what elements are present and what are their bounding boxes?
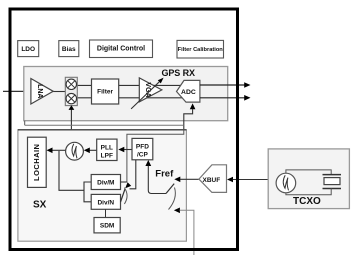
- block Filter Calibration: [177, 40, 224, 58]
- SX box top edge (dark): [18, 129, 187, 131]
- SX block box: [18, 130, 187, 241]
- wire SDM to DivN: [105, 209, 107, 217]
- block PFD/CP: [132, 138, 153, 159]
- svg-text:Bias: Bias: [62, 46, 76, 53]
- GPS RX block box: [24, 67, 228, 121]
- wire Fref to PFD with arrow: [145, 160, 166, 194]
- wire TCXO loop top: [286, 170, 331, 175]
- svg-text:Filter: Filter: [97, 89, 113, 96]
- wire AGC return line: [25, 124, 184, 126]
- crystal X1: [323, 175, 342, 189]
- wire GPS RX box left stub: [24, 121, 26, 126]
- block LDO: [18, 41, 39, 57]
- wire PLL LPF to VCO with arrow: [84, 148, 97, 154]
- wire ADC clock with arrow: [184, 103, 196, 130]
- oscillator VCO: [66, 142, 84, 160]
- svg-text:TCXO: TCXO: [293, 196, 321, 207]
- mixer (I/Q downconverter): [65, 77, 77, 105]
- switch divider lever: [121, 189, 126, 202]
- svg-text:LNA: LNA: [36, 84, 43, 98]
- filter block: [92, 79, 119, 104]
- svg-text:XBUF: XBUF: [203, 177, 221, 184]
- svg-text:SDM: SDM: [100, 223, 114, 230]
- wire TCXO to XBUF with arrow: [227, 177, 276, 183]
- svg-text:LPF: LPF: [101, 152, 113, 159]
- svg-text:Fref: Fref: [155, 169, 174, 180]
- wire switch lower contact with arrow: [174, 208, 194, 256]
- svg-text:LOCHAIN: LOCHAIN: [32, 144, 41, 181]
- svg-text:LDO: LDO: [21, 46, 35, 53]
- amplifier LNA: [31, 79, 53, 105]
- block SDM: [94, 218, 120, 233]
- wire divider input branch: [84, 182, 91, 202]
- ADC block: [177, 80, 200, 102]
- svg-text:Div/N: Div/N: [97, 199, 114, 206]
- wire PFD feedback input with arrow: [125, 160, 136, 189]
- buffer XBUF: [199, 165, 227, 193]
- block Div/N: [91, 194, 120, 209]
- wire RX output I with arrow: [200, 82, 251, 88]
- wire TCXO loop bottom: [286, 189, 331, 195]
- switch divider arc: [124, 188, 127, 204]
- wire PFD to PLL LPF with arrow: [118, 147, 132, 153]
- VGA gain control arrow: [131, 78, 164, 109]
- switch Fref arc: [169, 188, 176, 210]
- switch Fref lever: [166, 184, 174, 194]
- wire ADC clock run to divider switch: [127, 130, 184, 183]
- wire VCO to LOCHAIN with arrow: [47, 148, 66, 154]
- wire LO to mixer with arrow: [69, 105, 75, 142]
- svg-text:Filter Calibration: Filter Calibration: [178, 47, 224, 53]
- wire I path (mixer to ADC): [77, 84, 184, 86]
- block LOCHAIN: [28, 137, 47, 187]
- wire RF input: [3, 90, 31, 92]
- amplifier VGA: [139, 78, 162, 102]
- svg-text:GPS RX: GPS RX: [162, 68, 196, 78]
- svg-text:SX: SX: [33, 200, 47, 211]
- wire XBUF to switch upper contact with arrow: [174, 177, 199, 183]
- svg-text:Div/M: Div/M: [97, 180, 114, 187]
- chip outer box: [10, 9, 238, 250]
- svg-text:PFD: PFD: [136, 144, 149, 151]
- block Digital Control: [90, 40, 153, 58]
- svg-text:Digital Control: Digital Control: [97, 46, 145, 53]
- wire DivM to switch: [121, 181, 127, 183]
- block Bias: [59, 41, 79, 57]
- svg-text:/CP: /CP: [137, 152, 149, 159]
- oscillator TCXO core: [276, 173, 296, 193]
- svg-text:ADC: ADC: [181, 89, 196, 96]
- TCXO module box: [268, 149, 349, 209]
- svg-text:PLL: PLL: [101, 144, 113, 151]
- wire Q path (mixer to ADC): [77, 97, 186, 99]
- wire VCO feedback to dividers: [59, 151, 84, 190]
- wire RX output Q with arrow: [200, 95, 251, 101]
- wire LNA to mixer: [52, 91, 65, 93]
- block PLL LPF: [97, 139, 117, 160]
- block Div/M: [91, 175, 120, 190]
